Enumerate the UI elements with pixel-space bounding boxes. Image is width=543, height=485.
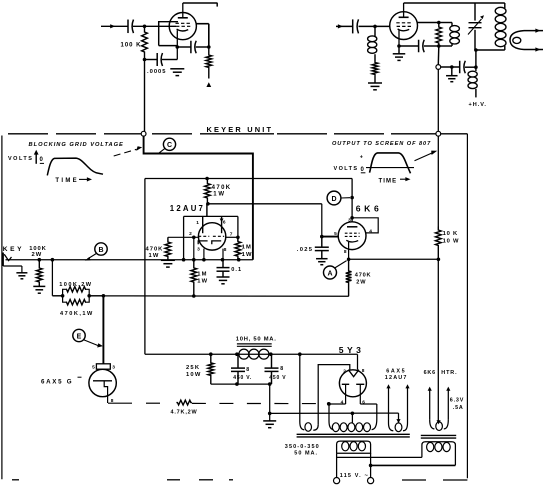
svg-text:10H, 50 MA.: 10H, 50 MA. [236,336,277,342]
label 470K 2W [355,272,372,285]
wire tank to primary [476,49,505,51]
label VOLTS right graph [334,166,359,172]
node primary parallel right [369,464,373,468]
resistor R6 470K 1W grid [165,237,171,259]
wire grid return bus [103,295,348,297]
wire keying line (thick) [144,136,253,260]
wire V2 cathode lead [398,30,400,46]
resistor R13 470K 2W [346,259,352,296]
label OUTPUT TO SCREEN OF 807 [332,141,431,147]
wire key line [6,259,253,261]
winding 5V rectifier [300,354,318,431]
node A circle [324,266,337,279]
wire screen tie [352,218,378,233]
wire pin2 filament path [318,365,350,425]
node C circle [163,138,175,150]
wire grid feed down [321,204,323,237]
tube V1 grids [176,23,191,26]
label 8 450V right [269,366,286,381]
label 350-0-350 50MA [285,444,320,457]
label 100K [120,43,141,49]
label 5Y3 [339,345,365,355]
wire T1 primary left lead [336,453,338,478]
capacitor C8 0.1 cathode [217,260,230,277]
inductor L4 output link [510,28,543,51]
axis arrow left graph [34,150,39,164]
leader node E [84,340,103,348]
svg-text:VOLTS: VOLTS [8,156,33,162]
wire R5 to plate box [206,204,208,217]
wire 12AU7 plate box top [184,215,238,217]
svg-text:4.7K,2W: 4.7K,2W [171,409,198,415]
ground below R9 [33,286,45,293]
ground below C10 [316,259,328,265]
node HV center tap [351,412,355,416]
choke core bars [237,344,272,346]
node 470K top [205,177,209,181]
node bypass gnd tap [450,65,454,69]
leader dashed to keying line [114,146,143,156]
tube U1 plates [0,0,1,1]
inductor L3 tank coil [495,3,506,50]
svg-text:C: C [167,142,172,149]
svg-text:6AX5 G: 6AX5 G [41,379,73,386]
wire input to oscillator grid [101,25,128,27]
tube V4 cathode [346,240,358,242]
svg-text:2: 2 [189,231,192,237]
terminal + supply arrow [206,82,211,87]
wire pin6 lead [220,216,224,233]
ground below R6 [161,260,175,267]
node pair right [87,294,91,298]
wire feedthrough to bypass [441,66,460,68]
capacitor C2 .0005 [157,53,162,66]
node cathode to rectifier [327,402,331,406]
wire box right vertical [237,216,239,241]
wire heater A center tap [396,413,400,423]
tube V2 amplifier envelope [390,12,418,40]
tube U1 12AU7 envelope [198,223,225,250]
svg-text:6.3V: 6.3V [450,397,464,403]
svg-text:D: D [331,196,336,203]
wire 6AX5 cathode dashed [108,402,328,404]
svg-text:8: 8 [280,366,283,372]
node D circle [327,191,341,205]
svg-text:TIME: TIME [379,178,398,184]
capacitor C1 grid coupling [128,20,134,34]
tube V2 grids [396,23,411,27]
resistor R7 1M 1W [191,260,197,296]
arrow TIME left [79,177,92,181]
winding 6.3V heater A [386,384,409,431]
wire to parallel pair [52,295,62,297]
label 470K 1W left [146,246,164,259]
tube U1 grids [198,235,224,237]
wire bias rail [145,353,358,355]
svg-text:470K: 470K [146,246,164,252]
arrow TIME right [400,177,411,181]
wire pin4 to HV winding [329,403,346,405]
coil T1 primary [337,441,371,453]
wire grid2 down [193,237,195,259]
capacitor C4 coupling [353,19,359,33]
svg-text:450 V.: 450 V. [233,375,252,381]
terminal plug right [368,478,374,484]
wire B+ top bus [404,2,505,4]
wire grid2 left [168,236,199,238]
wire T1 primary right lead [370,453,372,478]
pin labels 5Y3 [341,368,366,405]
label 6AX5 12AU7 [385,369,408,381]
svg-text:HTR.: HTR. [441,370,457,376]
label 10K 10W [443,231,460,244]
node pair left [61,294,65,298]
resistor R9 100K 2W shunt [36,260,42,287]
node key shunt [38,258,42,262]
tube V1 oscillator envelope [169,13,196,40]
label 100K,2W [59,282,92,288]
node 10K junction [437,258,441,262]
inductor L6 filter choke 10H [239,349,269,359]
wire 6K6 cathode lead [348,242,350,259]
waveform output screen [366,153,414,173]
svg-text:.025: .025 [297,247,313,253]
wire R4 bottom to feedthrough [437,46,440,65]
wire V1 plate to R2 [196,24,208,47]
svg-text:470K: 470K [212,185,232,191]
wire 6K6 grid (thick) [322,236,339,238]
wire primaries parallel top [337,456,422,458]
svg-text:2: 2 [343,369,346,375]
label 470K,1W [60,311,94,317]
ground below R3 [368,83,382,90]
wire C3 leads [177,46,209,48]
capacitor C3 feedback [191,41,196,54]
label 6K6 [356,204,383,214]
label 6AX5 G [41,377,82,385]
svg-text:KEYER UNIT: KEYER UNIT [207,125,274,134]
wire HV center tap [351,413,353,423]
label 115V [340,473,369,479]
wire pin8 cathode lead [222,249,224,260]
svg-text:KEY: KEY [3,246,24,253]
wire keying line down to keyer box [144,60,146,132]
resistor R10 100K 2W upper [63,287,90,296]
wire HV left leg [328,404,330,421]
svg-text:3: 3 [197,246,200,252]
wire screen line to heater winding [437,259,441,424]
node 25K top [209,352,213,356]
node 5V winding tap [298,352,302,356]
wire R5 to 6K6 grid feed [208,203,322,205]
node grid RFC junction [373,25,377,29]
svg-text:10W: 10W [186,372,202,378]
wire V2 plate to load [418,22,439,24]
node bottom rail right [268,382,272,386]
label 0005 [147,69,167,75]
node 1M bottom [192,294,196,298]
resistor R5 470K 1W [205,179,211,204]
svg-text:100K,2W: 100K,2W [59,282,92,288]
wire filter bottom rail [211,383,270,385]
wire pin1 lead [202,216,204,233]
ground below C8 [217,277,230,284]
svg-text:1W: 1W [242,252,253,258]
variable capacitor C6 tank [468,3,484,50]
resistor R8 1M 1W right [235,237,241,259]
tube V1 cathode [177,29,189,31]
wire screen line down [437,136,439,226]
node choke right [269,352,273,356]
label 10H 50MA [236,336,277,342]
tube V5 plates [342,384,365,404]
leader node D [341,197,350,199]
node tank bottom [474,48,478,52]
capacitor C5 cathode bypass [419,40,425,53]
wire primaries parallel bottom [371,464,456,466]
node key divider [51,258,55,262]
ground key jack [16,273,27,279]
wire pin6 to HV winding [360,404,377,419]
node grid 6K6 [320,235,324,239]
label +H.V. [469,102,487,108]
svg-text:E: E [77,333,82,340]
svg-text:1W: 1W [213,192,226,198]
node cathode A [347,258,351,262]
wire box left vertical [183,216,185,259]
wire C7 to HV choke [465,66,476,68]
wire gnd lead [398,46,400,54]
svg-text:6AX5: 6AX5 [386,369,406,375]
node grid bus left [102,294,106,298]
label TIME right graph [379,178,398,184]
svg-text:8: 8 [246,367,249,373]
terminal plug left [334,478,340,484]
resistor R4 plate load [436,23,442,47]
wire rail corner to 5Y3 pin8 [357,354,359,370]
node choke left [235,352,239,356]
svg-text:+H.V.: +H.V. [469,102,487,108]
svg-text:350-0-350: 350-0-350 [285,444,320,450]
wire C2 leads [145,59,178,61]
svg-text:3: 3 [112,365,115,371]
label 6.3V .5A [450,397,464,411]
svg-text:8: 8 [224,247,227,253]
label 1M 1W right [242,245,253,258]
wire cathode line [399,45,439,47]
tube V4 plate [347,226,357,228]
node HV choke top [474,65,478,69]
label KEY [3,246,24,253]
node screen-plate tie [350,216,354,220]
wire pair to grid bus [89,295,103,297]
wire grid box of V1 [159,22,178,46]
svg-text:1W: 1W [197,279,208,285]
wire V1 plate top feed [183,3,218,7]
label 0 left graph [40,157,45,164]
wire cathode to 10K [349,258,439,260]
wire 6AX5 plate feed (thick) [102,296,104,364]
terminal keying line through border [141,131,146,136]
node C3-R2 [207,45,211,49]
node B circle [95,243,107,255]
wire pin3 cathode lead [203,249,205,260]
inductor L1 grid RF choke [368,26,377,61]
ground main filter [263,421,276,428]
svg-text:1M: 1M [197,271,207,277]
capacitor C10 .025 [315,237,329,259]
leader node A [335,261,347,268]
label 470K 1W [212,185,232,198]
label 0.1 [231,267,242,273]
core T1 [297,434,410,437]
svg-text:1M: 1M [242,245,252,251]
wire divider down [51,260,53,296]
node cathode gnd [397,44,401,48]
core T2 [421,435,456,438]
ground below V2 cathode [393,54,406,61]
wire ground bus [270,412,399,414]
label + right graph [360,155,363,161]
resistor R14 10K 10W [435,227,441,260]
junction dots on key line [182,258,241,262]
label 12AU7 [170,204,205,213]
tube V3 6AX5 envelope [89,369,116,396]
keyer box bottom dashed border [12,479,467,481]
ground below V1 cathode [170,69,184,76]
inductor L5 HV choke [468,71,477,97]
keyer box left border [1,136,3,480]
svg-text:.0005: .0005 [147,69,167,75]
wire C4 to V2 grid [359,25,390,27]
node grid2 [192,236,196,240]
node R5 bottom [206,202,210,206]
terminal screen line through border [436,131,441,136]
capacitor C11 8uF [231,354,245,384]
winding 6.3V heater B [428,387,451,431]
tube V4 6K6 envelope [338,222,366,250]
svg-text:OUTPUT TO SCREEN OF 807: OUTPUT TO SCREEN OF 807 [332,141,431,147]
key jack [3,253,11,267]
svg-text:115 V.: 115 V. [340,473,362,479]
svg-text:1: 1 [196,220,199,226]
node grid7 [236,236,240,240]
node grid junction [143,25,147,29]
wire bottom rail to ground bus [269,384,271,421]
svg-text:.5A: .5A [453,405,464,411]
label VOLTS left graph [8,156,33,162]
svg-text:0.1: 0.1 [231,267,242,273]
ground bypass [446,67,458,82]
svg-text:12AU7: 12AU7 [385,375,408,381]
terminal feedthrough circle [436,65,441,70]
node HV left top [327,402,331,406]
label BLOCKING GRID VOLTAGE [29,142,124,148]
arrow on input wire [110,24,115,28]
label 100K 2W [29,246,46,258]
capacitor C7 screen bypass [460,61,466,74]
pin labels 6AX5 top [92,365,115,371]
svg-text:1W: 1W [149,253,160,259]
node R1 bottom junction [143,58,147,62]
tube U1 cathodes [198,241,221,244]
svg-text:10 W: 10 W [443,239,460,245]
resistor R2 plate dropping [206,47,212,79]
svg-text:470K,1W: 470K,1W [60,311,94,317]
tube V3 cathode [93,381,112,403]
svg-text:2W: 2W [356,280,366,286]
label TIME left graph [55,178,79,184]
wire plate bus y179 [145,178,352,180]
node E circle [73,329,85,341]
svg-text:450 V: 450 V [269,375,286,381]
svg-text:A: A [327,270,332,277]
coil T2 primary [422,442,456,466]
wire feedthrough down to keyer box [437,69,439,131]
tube V1 plate [178,3,188,18]
inductor L2 plate choke [439,23,460,47]
wire input to amplifier grid [336,25,353,27]
svg-text:25K: 25K [186,365,200,371]
wire 6K6 plate drop [351,179,353,223]
svg-text:6: 6 [223,220,226,226]
wire tank bottom to node [475,50,477,71]
label KEYER UNIT [207,125,274,134]
node bottom rail left [235,382,239,386]
tube V2 cathode [398,29,410,31]
svg-text:8: 8 [344,249,347,255]
svg-text:6K6: 6K6 [356,204,383,214]
svg-text:50 MA.: 50 MA. [294,451,318,457]
resistor R15 25K 10W [208,354,214,384]
tube V5 filament [348,370,359,377]
svg-text:B: B [98,247,103,254]
svg-text:8: 8 [362,368,365,374]
resistor R12 4.7K 2W [176,400,192,405]
wire bias feed left vertical [144,179,146,355]
svg-text:TIME: TIME [55,178,79,184]
leader node B [85,253,97,260]
node cathode-C3 [176,45,180,49]
waveform blocking voltage [47,158,103,175]
svg-text:3: 3 [348,217,351,223]
pin labels 6K6 [334,217,372,255]
node ground bus tap [268,412,272,416]
svg-text:VOLTS: VOLTS [334,166,359,172]
node D tap [350,196,354,200]
svg-text:BLOCKING GRID VOLTAGE: BLOCKING GRID VOLTAGE [29,142,124,148]
node R4 bottom [437,44,441,48]
winding HV 350-0-350 [329,419,377,432]
label 6K6 HTR [424,370,458,376]
svg-text:4: 4 [369,228,372,234]
capacitor C12 8uF [265,354,279,384]
svg-text:100 K: 100 K [120,43,141,49]
keyer box right border [466,134,468,478]
svg-text:10 K: 10 K [443,231,458,237]
resistor R3 grid leak [372,61,378,83]
tube V2 plate [399,3,409,17]
wire grid7 to right [226,236,238,238]
label 8 450V left [233,367,252,381]
label 0 right graph [361,167,366,173]
label .025 [297,247,313,253]
leader to screen line [415,151,438,161]
svg-text:470K: 470K [355,272,372,278]
node plate load top [437,21,441,25]
tube V3 6AX5 plate box [96,364,110,369]
keyer box top dashed border [8,133,467,135]
